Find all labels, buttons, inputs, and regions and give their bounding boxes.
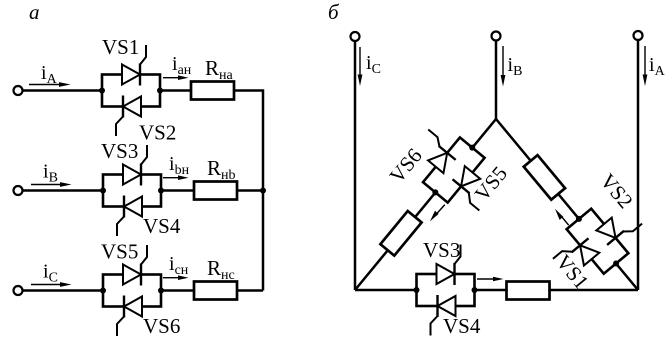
svg-text:ibн: ibн [169, 153, 190, 178]
svg-text:iA: iA [649, 54, 666, 79]
svg-text:iан: iан [172, 53, 192, 78]
svg-text:iсн: iсн [169, 253, 189, 278]
svg-text:VS4: VS4 [443, 314, 481, 338]
svg-text:VS6: VS6 [385, 144, 427, 188]
svg-text:а: а [29, 0, 40, 24]
svg-text:VS2: VS2 [139, 121, 176, 145]
svg-text:iB: iB [43, 161, 58, 186]
svg-text:iC: iC [43, 261, 58, 286]
svg-text:iC: iC [366, 52, 381, 77]
svg-text:iA: iA [41, 62, 58, 87]
svg-text:VS4: VS4 [143, 214, 181, 238]
svg-text:VS5: VS5 [101, 240, 138, 264]
svg-text:Rнс: Rнс [207, 256, 235, 283]
svg-text:Rна: Rна [205, 56, 234, 83]
svg-text:VS2: VS2 [595, 169, 637, 213]
svg-text:VS3: VS3 [423, 238, 460, 262]
svg-text:iB: iB [508, 54, 523, 79]
svg-text:VS1: VS1 [102, 35, 139, 59]
svg-text:VS3: VS3 [101, 139, 138, 163]
svg-text:б: б [328, 0, 340, 24]
svg-text:Rнb: Rнb [207, 156, 236, 183]
svg-text:VS6: VS6 [143, 314, 180, 338]
